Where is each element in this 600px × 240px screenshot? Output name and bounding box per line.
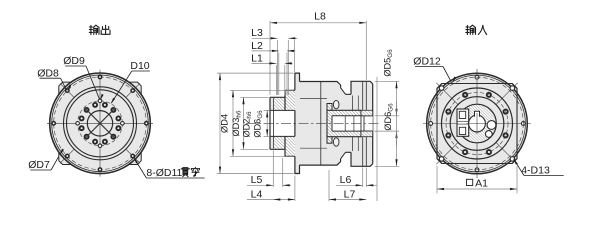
D3 ring OD3 bbox=[285, 90, 295, 156]
dashed circle D10 bbox=[78, 101, 123, 146]
bore band white bbox=[270, 110, 295, 136]
svg-text:A1: A1 bbox=[475, 177, 488, 189]
bore spokes bbox=[85, 108, 115, 138]
8 bolt holes 22.5deg bbox=[503, 132, 509, 138]
clamp block bbox=[457, 109, 469, 136]
clamp screw circles bbox=[487, 121, 496, 130]
svg-text:ØD12: ØD12 bbox=[413, 56, 441, 68]
dim OD4 bbox=[217, 72, 294, 74]
svg-text:L5: L5 bbox=[251, 174, 263, 186]
svg-text:L4: L4 bbox=[251, 188, 263, 200]
square plate A1 bbox=[437, 84, 517, 164]
centerline horizontal bbox=[47, 122, 153, 124]
bore cross ticks bbox=[467, 123, 488, 125]
dashed bolt circle bbox=[446, 93, 508, 155]
corner tab bottom-right bbox=[129, 152, 141, 164]
centerline horizontal bbox=[423, 123, 531, 125]
dim OD3h6 bbox=[230, 89, 294, 91]
bearing balls bbox=[333, 100, 339, 108]
dim OD6G6 left bbox=[264, 109, 270, 111]
keyway bbox=[475, 111, 480, 117]
corner tab top-left bbox=[59, 82, 71, 94]
dim L4 bbox=[294, 40, 296, 72]
4 OD11 through holes bbox=[521, 122, 525, 126]
input hub left wall bbox=[327, 104, 332, 144]
D3 ring hatch bottom bbox=[285, 136, 295, 156]
svg-text:4-D13: 4-D13 bbox=[521, 165, 550, 177]
input flange circle 2 bbox=[429, 75, 526, 172]
flange circle OD8 bbox=[52, 75, 149, 172]
dim OD2h6 bbox=[241, 96, 269, 98]
svg-text:L1: L1 bbox=[251, 52, 263, 64]
D3 ring hatch top bbox=[285, 90, 295, 110]
neck bbox=[346, 94, 352, 152]
square outline restroke bbox=[437, 84, 517, 164]
diagonal centerlines bbox=[496, 143, 518, 165]
input flange ring OD5 bbox=[351, 81, 373, 166]
svg-text:L8: L8 bbox=[314, 11, 326, 23]
8 x OD11 through holes bbox=[144, 121, 149, 126]
dim L8 bbox=[269, 21, 271, 95]
right view: input side bbox=[423, 69, 531, 178]
section centerline bbox=[246, 122, 380, 124]
housing joint line bbox=[320, 82, 322, 166]
12 bolt holes ring bbox=[116, 125, 122, 131]
centerline vertical bbox=[476, 69, 478, 178]
left view: output side flange bbox=[47, 70, 153, 177]
dim A1 bbox=[436, 166, 438, 193]
svg-text:ØD7: ØD7 bbox=[28, 159, 50, 171]
corner tab bottom-left bbox=[59, 152, 71, 164]
output shaft bbox=[270, 73, 373, 173]
dim OD6g6 right bbox=[375, 115, 400, 117]
right face extension bbox=[376, 77, 378, 201]
svg-text:ØD9: ØD9 bbox=[63, 55, 85, 67]
boss circle inner bbox=[67, 90, 134, 157]
dim OD5g6 bbox=[375, 80, 400, 82]
svg-text:L6: L6 bbox=[340, 174, 352, 186]
flange outer circle OD7 bbox=[50, 73, 151, 174]
svg-text:ØD8: ØD8 bbox=[37, 68, 59, 80]
4 corner holes D13 bbox=[510, 157, 515, 162]
shaft wall hatch top bbox=[274, 97, 285, 110]
plate OD4 bbox=[295, 73, 300, 173]
housing outline bbox=[300, 82, 341, 166]
input hub block bbox=[327, 110, 361, 136]
input bore bbox=[332, 116, 373, 131]
svg-text:ØD4: ØD4 bbox=[220, 114, 230, 133]
bolt circle dashed OD11 bbox=[54, 77, 147, 170]
hub hatched disc bbox=[458, 104, 497, 143]
4 x OD9 holes bbox=[121, 122, 125, 126]
svg-text:L7: L7 bbox=[344, 188, 356, 200]
input flange outer circle bbox=[427, 73, 528, 174]
taper to neck bbox=[341, 88, 346, 159]
centerline vertical bbox=[99, 70, 101, 177]
bore steps bbox=[344, 116, 346, 131]
shaft wall hatch bottom bbox=[274, 136, 285, 149]
svg-text:L2: L2 bbox=[251, 40, 263, 52]
shaft bore lines bbox=[270, 110, 295, 136]
corner tab top-right bbox=[129, 82, 141, 94]
boss circle outer bbox=[64, 87, 137, 160]
shaft outline bbox=[270, 97, 285, 149]
internal walls bbox=[300, 98, 327, 100]
svg-text:D10: D10 bbox=[130, 60, 149, 72]
center bore bbox=[469, 115, 486, 132]
svg-text:8-ØD11: 8-ØD11 bbox=[146, 167, 182, 179]
center bore circle bbox=[87, 111, 112, 136]
label 输入 bbox=[466, 25, 476, 34]
inner circle bbox=[442, 88, 513, 159]
label 输出 bbox=[89, 25, 99, 34]
diagonal centerlines bbox=[126, 149, 141, 164]
hub boss circle bbox=[450, 97, 504, 151]
dashed circle through holes bbox=[431, 77, 524, 170]
svg-text:L3: L3 bbox=[251, 27, 263, 39]
